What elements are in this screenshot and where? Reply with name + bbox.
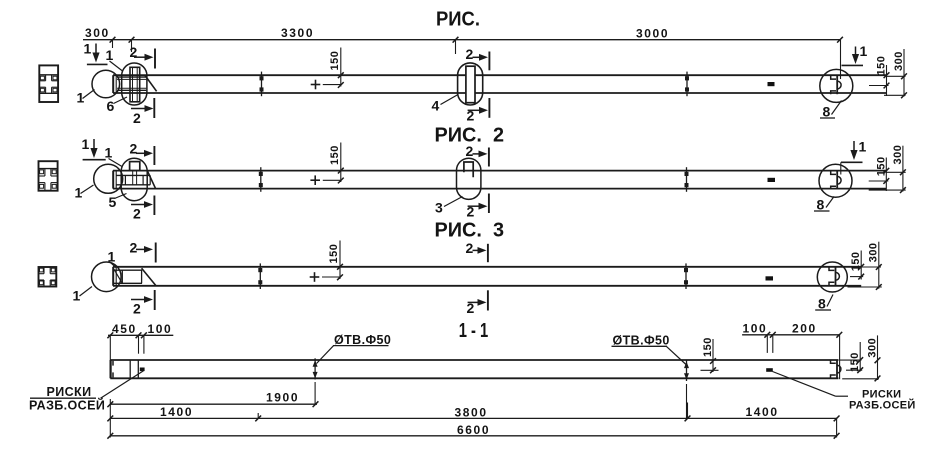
joint mark at x=260 (row 3): [259, 263, 261, 289]
dim line 1400/3800/1400: [110, 417, 836, 419]
beam left end edge (row 1): [112, 75, 114, 93]
svg-text:1: 1: [84, 41, 92, 57]
leader of lower label 1 (row 3): [80, 287, 93, 297]
dim line 1900: [110, 403, 317, 405]
extension lines (bottom left dims): [109, 335, 111, 360]
svg-text:1: 1: [82, 136, 90, 152]
dim 300 right (row 1): [903, 49, 905, 97]
axis cross mark (row 2): [310, 179, 320, 181]
svg-text:2: 2: [466, 46, 474, 62]
mounting arrow 1 (row 1 left): [95, 44, 97, 55]
joint line at x=130 (section 1-1): [129, 360, 131, 378]
bevel weld line (row 3 left): [142, 268, 156, 285]
bevel weld line (row 2 left): [147, 171, 155, 188]
tick at 3000-right: [837, 37, 843, 43]
svg-text:2: 2: [467, 108, 475, 124]
beam right end bracket (row 3): [835, 267, 837, 285]
joint mark at x=262 (row 1): [261, 72, 263, 97]
svg-text:150: 150: [849, 352, 861, 372]
section mark 2-2 bottom left (row 1): [131, 108, 147, 110]
svg-text:300: 300: [867, 338, 879, 358]
svg-text:2: 2: [130, 240, 138, 256]
svg-text:300: 300: [868, 242, 880, 262]
dim line 100/200 (bottom right): [742, 334, 840, 336]
svg-text:150: 150: [876, 56, 888, 76]
leader to РИСКИ label (right): [773, 372, 836, 397]
svg-text:1: 1: [859, 139, 867, 155]
beam right end bracket (row 2): [836, 171, 838, 189]
joint line at x=138 (section 1-1): [137, 360, 139, 378]
column cross-section symbol (row 1 left): [39, 65, 58, 102]
dim 150 (section 1-1 right): [712, 339, 714, 372]
svg-text:2: 2: [466, 143, 474, 159]
extension from hole down to dim (right): [686, 384, 688, 419]
section mark 2-2 bottom middle (row 1): [468, 109, 481, 111]
joint mark at x=261 (row 2): [260, 167, 262, 192]
beam left end edge (row 3): [112, 267, 114, 286]
axis cross mark (row 3): [310, 276, 320, 278]
hole axis mark left (ØТВ.Ф50): [314, 358, 316, 379]
detail circle callout 8 (row 3 right end): [817, 262, 847, 292]
dim 300 right (row 3): [878, 242, 880, 289]
beam right end bracket (section 1-1): [836, 360, 838, 378]
svg-text:1: 1: [108, 249, 116, 265]
black axis riska (row 2): [768, 178, 776, 182]
dim 150 right (row 2): [885, 158, 887, 192]
beam bottom edge (row 2): [113, 188, 886, 190]
axis cross mark (row 1 mid-left): [311, 84, 321, 86]
leader of ØТВ.Ф50 (right): [666, 346, 686, 364]
svg-text:100: 100: [148, 322, 173, 336]
beam bottom edge (row 3): [113, 285, 861, 287]
beam top edge (row 3): [113, 266, 861, 268]
svg-text:2: 2: [467, 300, 475, 316]
detail circle callout (row 2 left end): [94, 164, 123, 193]
beam top edge (row 1): [113, 74, 887, 76]
embedded П detail (row 2 middle): [464, 162, 473, 177]
black axis riska (section 1-1 left): [140, 368, 145, 372]
black axis riska (row 1): [768, 82, 775, 86]
tick at 3300/3000: [453, 37, 459, 43]
dim 150 line (row 3): [339, 241, 341, 279]
svg-text:150: 150: [850, 251, 862, 271]
dim 300 (section 1-1 right end): [877, 335, 879, 380]
svg-text:150: 150: [702, 337, 714, 357]
tick at 300/3300: [129, 37, 135, 43]
dim 300 right (row 2): [902, 146, 904, 192]
svg-text:1: 1: [860, 43, 868, 59]
mounting arrow 1 (row 2 right): [853, 141, 855, 152]
detail circle callout (row 1 left end): [92, 70, 120, 98]
svg-text:1900: 1900: [266, 391, 299, 405]
dim 150 right (row 1): [886, 65, 888, 96]
bevel weld line (row 1 left): [145, 75, 157, 91]
dim line 6600: [110, 435, 836, 437]
dim 150 extension (row 3): [322, 276, 340, 278]
svg-text:300: 300: [892, 145, 904, 165]
dim 150 right (row 3): [860, 251, 862, 280]
left end connection detail (row 3): [113, 269, 142, 271]
svg-text:РИС.: РИС.: [436, 9, 480, 31]
extension into circle (row 2 right): [840, 162, 842, 174]
svg-text:1400: 1400: [160, 405, 193, 419]
extension right for bottom dims: [836, 418, 838, 437]
detail ellipse callout 6 (row 1 left): [122, 63, 147, 105]
svg-text:150: 150: [328, 244, 340, 264]
svg-text:1: 1: [105, 145, 113, 161]
svg-text:РАЗБ.ОСЕЙ: РАЗБ.ОСЕЙ: [849, 399, 916, 412]
section mark 2-2 bottom middle (row 2): [468, 205, 481, 207]
svg-text:6600: 6600: [457, 423, 490, 437]
svg-text:1400: 1400: [746, 405, 779, 419]
leader of lower label 1 (row 2): [81, 185, 94, 194]
column cross-section symbol (row 2 left): [39, 161, 58, 191]
extension at x=687 above 1400 line: [687, 403, 689, 419]
section mark 2-2 bottom left (row 3): [131, 299, 146, 301]
detail circle callout (row 3 left end): [92, 262, 122, 292]
svg-text:8: 8: [817, 197, 825, 213]
svg-text:450: 450: [112, 322, 137, 336]
svg-text:ØТВ.Ф50: ØТВ.Ф50: [613, 334, 670, 348]
svg-text:150: 150: [329, 145, 341, 165]
leader of upper label 1 (row 1): [110, 61, 123, 71]
joint mark at x=687 (row 2): [686, 167, 688, 192]
extension at x=258 (1400/3800): [257, 413, 259, 418]
mounting arrow 1 (row 1 right): [855, 47, 857, 57]
joint mark at x=686 (row 3): [685, 263, 687, 289]
extension from hole down to dim (left): [314, 382, 316, 405]
section mark 2-2 bottom middle (row 3): [468, 301, 480, 303]
svg-text:100: 100: [743, 322, 768, 336]
svg-text:3000: 3000: [636, 27, 669, 41]
leader of upper label 1 (row 3): [111, 263, 117, 268]
svg-text:3: 3: [435, 200, 443, 216]
svg-text:4: 4: [432, 98, 440, 114]
beam bottom edge (row 1): [113, 92, 887, 94]
svg-text:2: 2: [133, 301, 141, 317]
svg-text:РИСКИ: РИСКИ: [47, 385, 92, 399]
dim 150 line (row 2): [340, 143, 342, 183]
svg-text:2: 2: [467, 204, 475, 220]
leader of label 3: [444, 197, 463, 207]
black axis riska (row 3): [766, 276, 774, 280]
dim 150 extension (row 1): [323, 84, 341, 86]
svg-text:2: 2: [466, 240, 474, 256]
leader of label 5 (row 2): [115, 194, 127, 199]
dimension line top (row 1): [83, 39, 841, 41]
svg-text:6: 6: [107, 98, 115, 114]
svg-text:150: 150: [875, 156, 887, 176]
leader to РИСКИ label (left): [101, 371, 144, 399]
svg-text:2: 2: [133, 110, 141, 126]
svg-text:РИС. 3: РИС. 3: [435, 220, 505, 242]
svg-text:1: 1: [106, 47, 114, 63]
svg-text:300: 300: [85, 26, 110, 40]
embedded channel detail (row 2 left): [130, 162, 140, 171]
beam left end edge (section 1-1): [109, 360, 111, 378]
svg-text:3300: 3300: [281, 26, 314, 40]
svg-text:200: 200: [792, 322, 817, 336]
black axis riska (section 1-1 right): [766, 368, 773, 372]
extension line at x=840 to right circle: [840, 40, 842, 79]
svg-text:ØТВ.Ф50: ØТВ.Ф50: [334, 333, 391, 347]
detail circle callout 8 (row 2 right end): [819, 164, 852, 197]
beam right end bracket (row 1): [836, 76, 838, 94]
dim 150 (section 1-1 right end): [840, 359, 862, 361]
detail ellipse callout 3 (row 2 middle): [457, 158, 481, 199]
svg-text:1 - 1: 1 - 1: [459, 320, 489, 342]
svg-text:2: 2: [133, 206, 141, 222]
extension line at beam right end (bottom): [839, 335, 841, 379]
detail circle callout 8 (row 1 right end): [820, 69, 853, 102]
svg-text:150: 150: [329, 51, 341, 71]
left end notches (section 1-1): [112, 361, 114, 366]
extension left for bottom dims: [109, 399, 111, 438]
beam bottom edge (section 1-1): [110, 377, 838, 379]
section mark 2-2 bottom left (row 2): [131, 204, 146, 206]
leader of upper label 1 (row 2): [109, 159, 123, 167]
joint mark at x=687 (row 1): [686, 72, 688, 97]
leader of label 4: [441, 95, 459, 105]
detail ellipse callout 4 (row 1 middle): [458, 63, 483, 105]
beam top edge (section 1-1): [110, 359, 838, 361]
column cross-section symbol (row 3 left): [39, 267, 57, 287]
svg-text:8: 8: [818, 296, 826, 312]
detail ellipse callout 5 (row 2 left): [121, 158, 147, 200]
svg-text:300: 300: [893, 51, 905, 71]
leader of label 6 (row 1): [114, 97, 128, 104]
dim 150 extension (row 2): [323, 179, 341, 181]
dim line 450/100 (bottom left): [108, 334, 173, 336]
svg-text:РАЗБ.ОСЕЙ: РАЗБ.ОСЕЙ: [29, 398, 105, 413]
beam top edge (row 2): [113, 170, 886, 172]
dim 150 line (row 1): [340, 48, 342, 87]
hole axis mark right (ØТВ.Ф50): [686, 361, 688, 382]
beam left end edge (row 2): [112, 171, 114, 189]
extension line at x=112: [112, 40, 114, 48]
extension line at x=131: [131, 40, 133, 52]
leader of lower label 1 (row 1): [83, 90, 95, 99]
svg-text:2: 2: [130, 141, 138, 157]
embedded plate cross (row 1 left): [130, 67, 140, 102]
embedded plate in ellipse 4: [466, 66, 475, 103]
leader of ØТВ.Ф50 (left): [317, 346, 334, 364]
svg-text:3800: 3800: [455, 406, 488, 420]
extension line at x=455: [455, 40, 457, 54]
svg-text:5: 5: [109, 194, 117, 210]
tick at 300-left: [110, 37, 116, 43]
mounting arrow 1 (row 2 left): [93, 139, 95, 150]
extension lines (bottom right dims): [766, 335, 768, 353]
svg-text:8: 8: [823, 104, 831, 120]
